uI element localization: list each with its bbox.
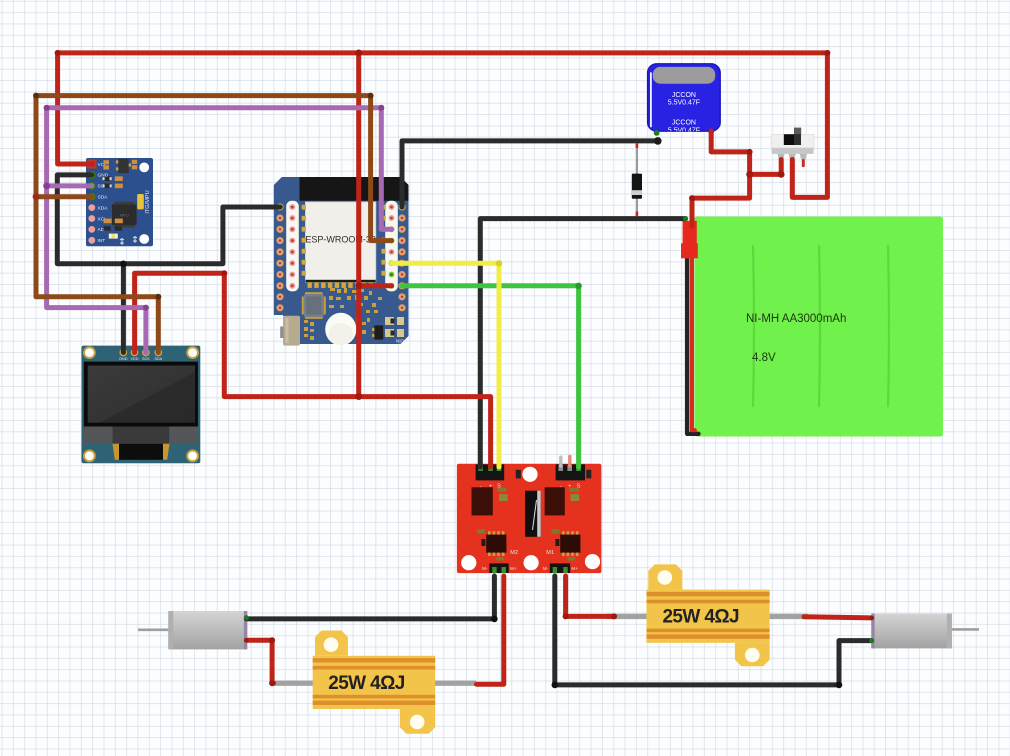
- slide switch SW1: [771, 128, 814, 166]
- svg-text:M+: M+: [571, 566, 578, 571]
- bottom-right tab: [400, 709, 435, 734]
- svg-text:VDD: VDD: [130, 357, 138, 361]
- switch pin 1: [778, 154, 785, 160]
- svg-text:ESP-WROOM-32: ESP-WROOM-32: [305, 235, 376, 245]
- board outline: [274, 177, 409, 344]
- junction (green bend): [575, 283, 581, 289]
- driver IC M2 (SOIC-8): [481, 531, 506, 556]
- svg-text:GND: GND: [119, 357, 128, 361]
- wire purple branch: SCL junction down to OLED SCK: [47, 186, 146, 353]
- input connector right (- + S): [556, 464, 585, 489]
- connected pins SCL/SDA/IO/5V (green): [389, 226, 395, 288]
- supercapacitor C1 JCCON 5.5V0.47F: [648, 64, 721, 136]
- ESP32 dev board U1 (ESP-WROOM-32 mini): [274, 177, 409, 344]
- svg-text:SCK: SCK: [142, 357, 150, 361]
- pin labels: [98, 162, 109, 244]
- ESP32 lower board details: [280, 288, 404, 346]
- mounting holes: [83, 346, 199, 462]
- svg-text:5.5V0.47F: 5.5V0.47F: [668, 100, 700, 107]
- junction (yellow bend): [496, 260, 502, 266]
- switch pin 3 (unconnected, red stub): [800, 154, 807, 160]
- right motor terminal + (dark red, top): [869, 616, 873, 620]
- top-left tab: [648, 564, 682, 589]
- driver IC M1 (SOIC-8): [555, 531, 580, 556]
- antenna band: [300, 177, 409, 201]
- svg-text:M-: M-: [482, 566, 488, 571]
- gold square pads inner rows: [302, 205, 386, 276]
- wire red 5V rail: MPU VCC up over top to switch pin 2: [58, 53, 828, 198]
- svg-text:INT: INT: [98, 238, 106, 244]
- motor connector M1 (M- M+): [543, 563, 578, 573]
- power resistor R1 25W 4ΩJ (left): [271, 631, 476, 734]
- wire red: rail drop to ESP32 5V and OLED feed line: [356, 53, 361, 397]
- left inner pad column: [289, 204, 295, 289]
- junction (red, rail tee at top): [355, 50, 362, 57]
- left outer pad column: [276, 203, 283, 311]
- battery pack BT1 NI-MH AA3000mAh 4.8V: [694, 217, 943, 437]
- OLED display U3 (0.96in I2C): [82, 346, 201, 464]
- svg-text:5.5V0.47F: 5.5V0.47F: [668, 128, 700, 135]
- unconnected stub wires over right connector: [559, 457, 562, 466]
- svg-text:JCCON: JCCON: [672, 119, 696, 126]
- pin header strip left: [286, 201, 299, 292]
- pin header strip right: [385, 201, 398, 292]
- junction (black, M1- bend): [552, 682, 559, 689]
- svg-text:4.8V: 4.8V: [752, 352, 776, 364]
- SoC chip: [304, 294, 324, 316]
- wire red: branch to switch pin 1: [750, 160, 782, 175]
- wire red: OLED VDD up-over-down to driver + input: [135, 273, 491, 467]
- right motor terminal - (green, bottom): [869, 638, 874, 643]
- svg-text:SDA: SDA: [98, 195, 109, 201]
- battery holder lead wires (black/red along left edge): [687, 256, 698, 434]
- pin GND / VDD / SCK / SDA: [119, 349, 127, 357]
- wire black: ESP32 GND right to supercap negative: [402, 141, 657, 207]
- top-left tab: [315, 631, 348, 656]
- svg-text:M-: M-: [543, 566, 549, 571]
- svg-text:N|O: N|O: [396, 339, 405, 344]
- center electrolytic (black, lying): [525, 491, 541, 537]
- diode D1: [632, 144, 642, 216]
- wire red: supercap + down to battery +: [692, 131, 750, 226]
- wire black: battery negative to driver - input: [480, 219, 685, 467]
- wire red: driver M2+ down-left to left resistor: [477, 576, 504, 684]
- capacitor pin - (left, connected green): [654, 130, 660, 136]
- bulk capacitors (dark): [472, 487, 493, 515]
- svg-text:JCCON: JCCON: [672, 92, 696, 99]
- micro-USB metal shield: [283, 316, 300, 346]
- svg-text:ITG/MPU: ITG/MPU: [145, 190, 151, 213]
- pin SDA (connected, green): [88, 193, 95, 200]
- motor driver board U4 (dual TB6612/L9110): [457, 456, 602, 573]
- svg-text:25W 4ΩJ: 25W 4ΩJ: [328, 673, 405, 694]
- pin XCL: [88, 215, 95, 222]
- olive smds: [477, 488, 579, 561]
- pin SCL (connected, green): [88, 182, 95, 189]
- passives / gold traces scatter: [304, 288, 382, 340]
- IO pin (connected, green): [399, 283, 404, 288]
- smd rows lower: [104, 219, 112, 224]
- input connector left (- + S): [476, 464, 505, 489]
- wire red: left resistor to left motor - terminal: [246, 640, 273, 683]
- wire green: ESP32 IO to driver right S input: [402, 286, 579, 467]
- IC MPU-6050 chip: [112, 202, 137, 228]
- wire red: right resistor to right motor + terminal: [804, 617, 872, 618]
- svg-text:25W 4ΩJ: 25W 4ΩJ: [662, 607, 739, 628]
- wire brown: MPU SDA to ESP32 SDA: [36, 96, 392, 241]
- junction (red, ESP 5V tap): [355, 282, 362, 289]
- pin GND (connected, green): [88, 172, 95, 179]
- power resistor R2 25W 4ΩJ (right): [606, 564, 808, 666]
- pin AD0: [88, 226, 95, 233]
- junction (black, OLED GND tap): [120, 261, 126, 267]
- mounting hole top-right: [139, 163, 149, 173]
- svg-text:M2: M2: [510, 550, 518, 556]
- module castellated pads bottom: [308, 282, 374, 288]
- small transistor part: [374, 325, 383, 339]
- accelerometer module U2 (GY-521 MPU-6050): [86, 158, 153, 246]
- wire black GND: MPU GND to ESP32 GND: [57, 175, 280, 264]
- junction (brown, SDA tee): [33, 193, 40, 200]
- white LED: [109, 234, 118, 239]
- battery negative terminal dot (green): [683, 216, 688, 221]
- GND pin (connected, green): [277, 204, 282, 209]
- wire black: driver M1- to right motor: [555, 576, 872, 685]
- wire black: driver M2- to left motor: [246, 576, 494, 619]
- strip below screen: [84, 427, 198, 444]
- wire brown branch: SDA junction down to OLED SDA: [36, 197, 158, 353]
- body: [313, 656, 436, 709]
- svg-text:XDA: XDA: [98, 205, 109, 211]
- wire red: stub to ESP32 5V pin: [359, 283, 392, 288]
- junction (black, M2- bend): [491, 616, 498, 623]
- screen bezel: [84, 362, 198, 427]
- bottom-right tab: [735, 643, 770, 667]
- wire purple: MPU SCL to ESP32 SCL: [47, 108, 392, 230]
- smd parts top row: [103, 160, 109, 164]
- wire red: driver M1+ down to right resistor: [566, 576, 615, 616]
- junction (red, switch branch tee): [746, 171, 753, 178]
- svg-text:MPU: MPU: [120, 213, 129, 218]
- svg-text:NI-MH AA3000mAh: NI-MH AA3000mAh: [746, 313, 846, 325]
- GND pin (connected, green): [399, 204, 404, 209]
- left motor terminal + (green, top): [244, 615, 249, 620]
- pin VCC (red square pad): [87, 160, 96, 169]
- leads: [606, 614, 647, 619]
- junction (red, OLED feed bends): [55, 50, 61, 56]
- mounting holes: [522, 467, 537, 482]
- motor connector M2 (M- M+): [482, 563, 517, 573]
- wire yellow: ESP32 IO to driver left S input: [392, 263, 499, 467]
- capacitor pin + (right): [708, 129, 714, 135]
- flex ribbon connector: [113, 444, 120, 460]
- wire black GND branch to OLED: [121, 264, 126, 353]
- pin XDA: [88, 204, 95, 211]
- switch pin 2: [789, 154, 796, 160]
- smd rows mid: [104, 176, 111, 181]
- ESP32 pin pads: [276, 203, 405, 311]
- terminal dots over wire ends: [244, 216, 874, 643]
- svg-text:M1: M1: [546, 550, 554, 556]
- right inner pad column: [389, 204, 395, 289]
- smd bits beside connectors: [516, 470, 521, 479]
- svg-text:SDA: SDA: [154, 357, 162, 361]
- leads: [271, 681, 314, 686]
- ESP-WROOM-32 module: [306, 202, 376, 282]
- junction (red, feed line tee): [355, 393, 362, 400]
- axis marks: [120, 237, 137, 246]
- DC motor M2 (left): [138, 611, 247, 649]
- battery positive terminal block: [681, 221, 698, 258]
- junction (red, motor bends): [269, 637, 275, 643]
- left motor terminal - (dark red, bottom): [244, 638, 248, 642]
- right outer pad column: [398, 203, 405, 311]
- pin INT: [88, 237, 95, 244]
- yellow capacitor: [137, 194, 144, 209]
- body: [647, 590, 770, 643]
- svg-text:M+: M+: [510, 566, 517, 571]
- junction (purple, SCL tee): [43, 183, 50, 190]
- DC motor M1 (right): [871, 614, 979, 649]
- reset button (white oval): [325, 313, 356, 346]
- mounting hole bottom-right: [139, 234, 149, 244]
